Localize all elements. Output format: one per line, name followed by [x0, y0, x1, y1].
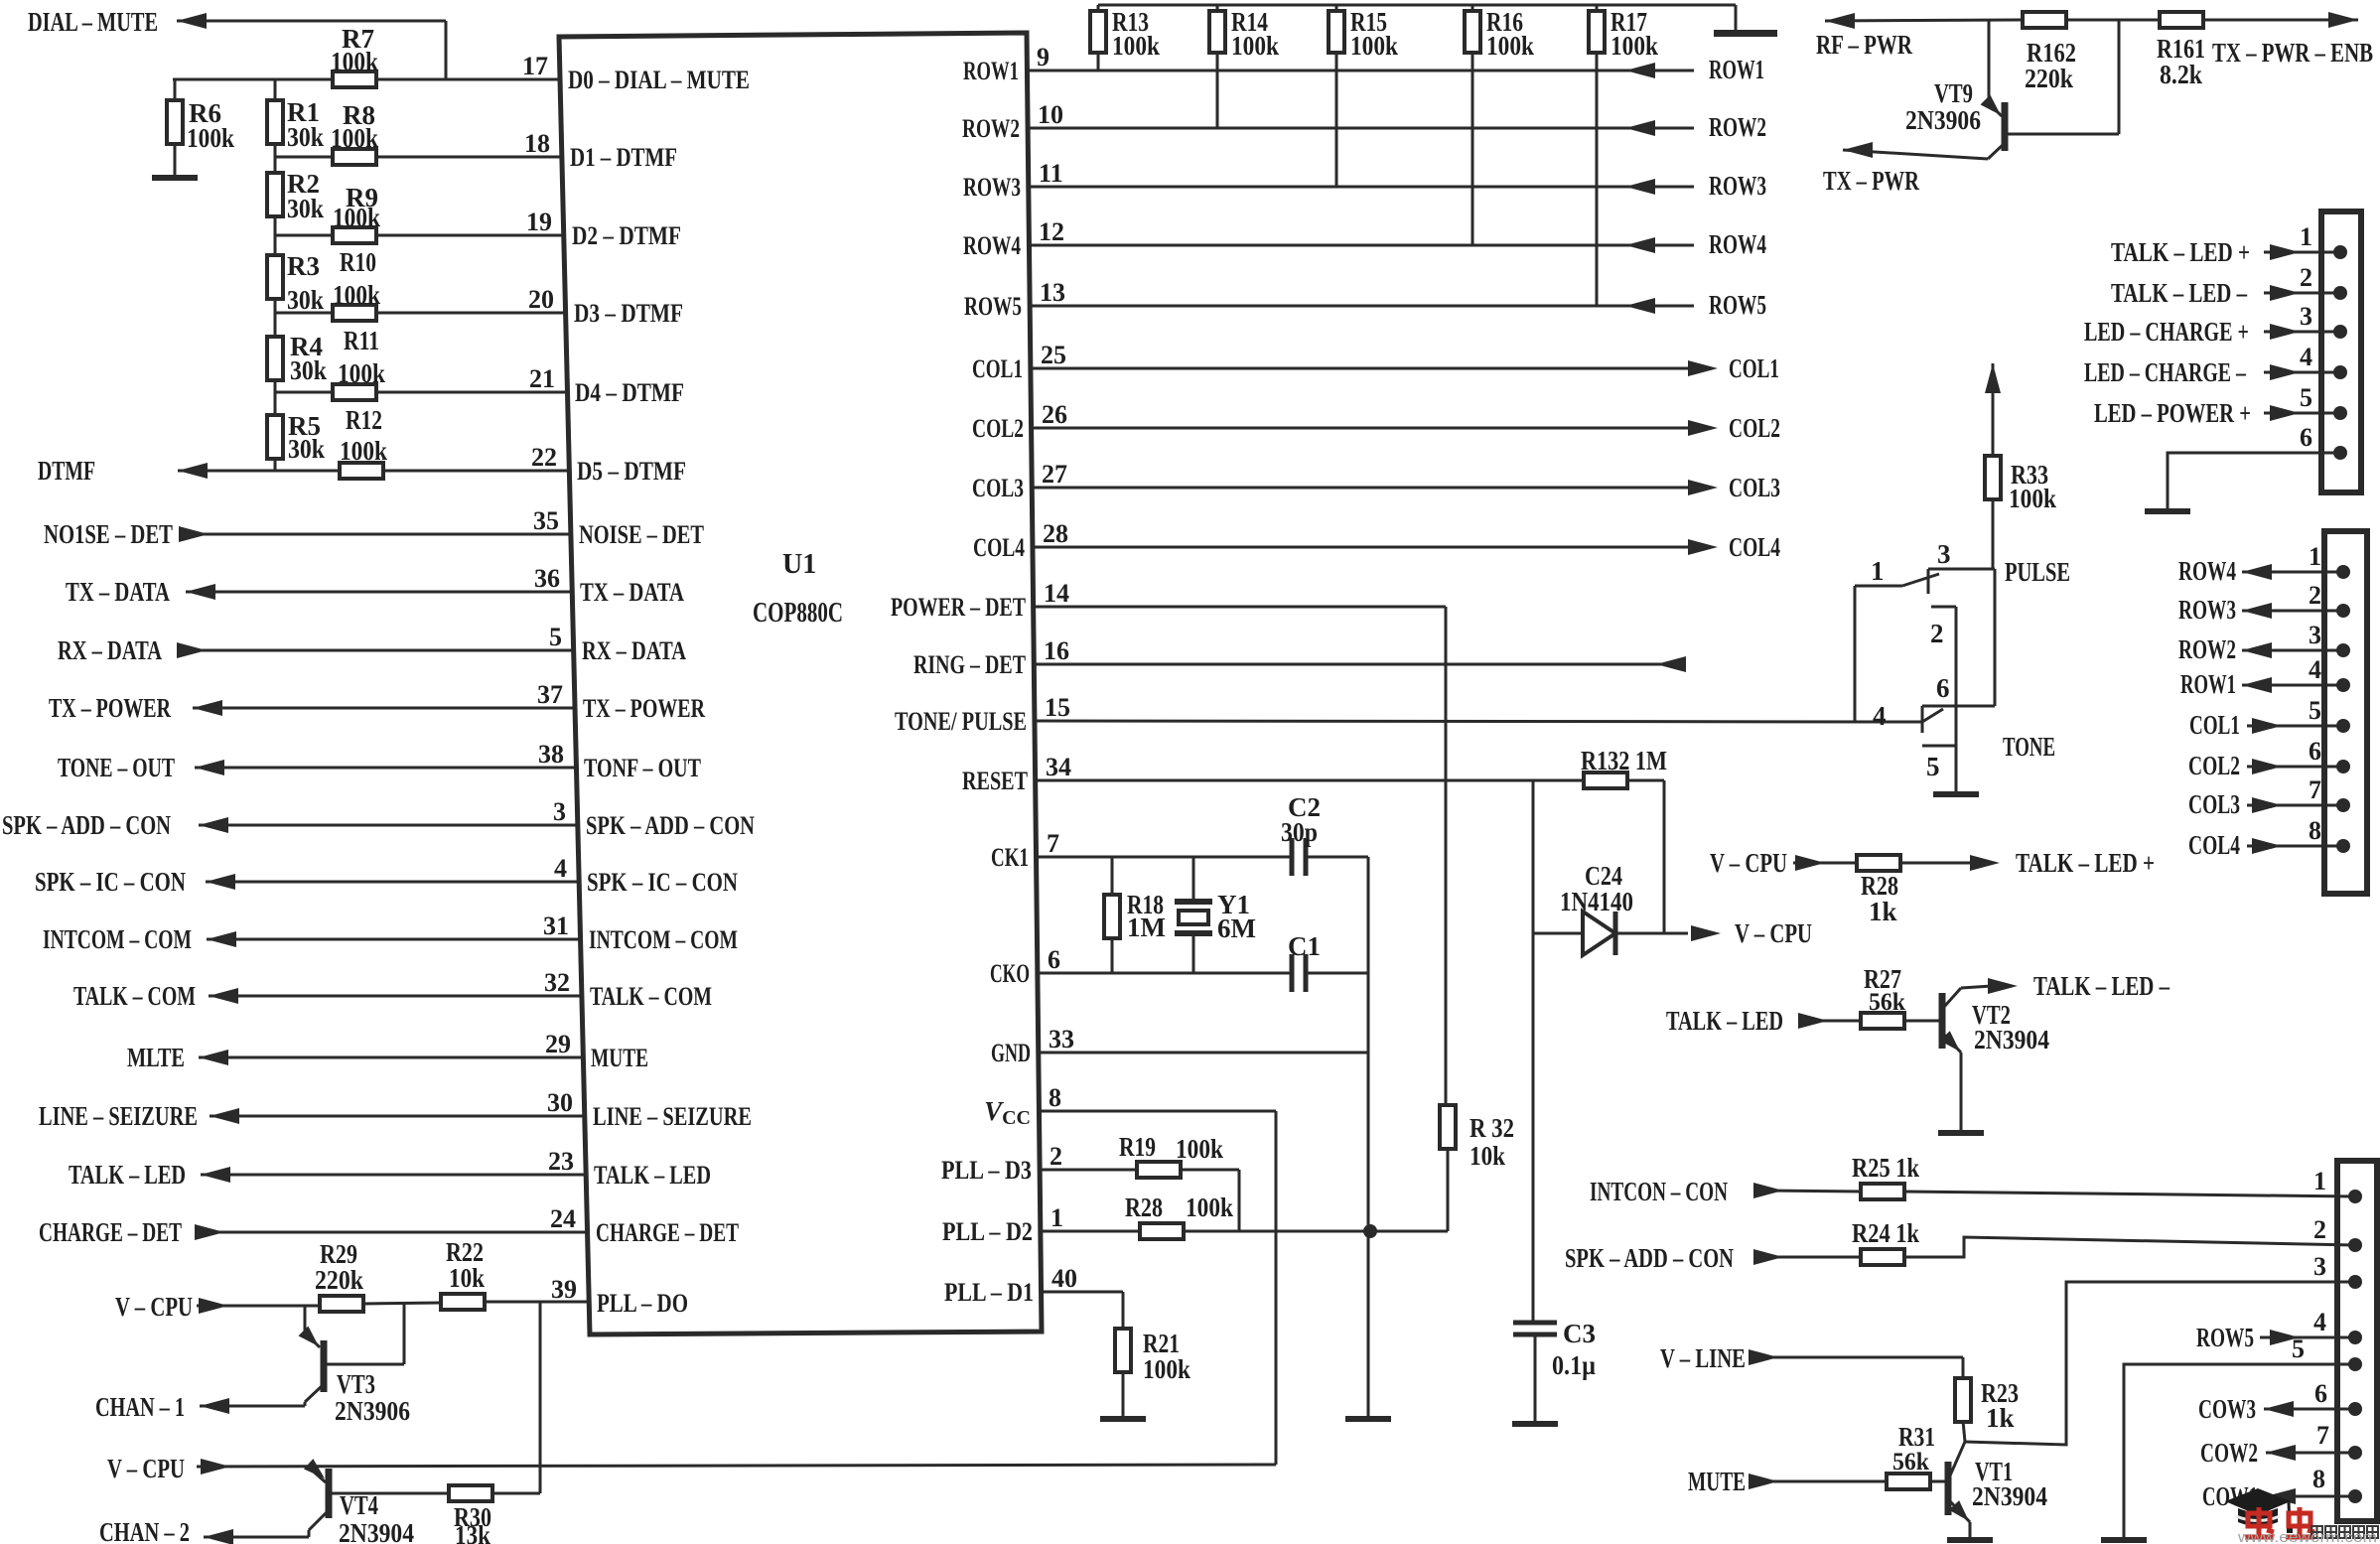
- net ROW2: [1028, 127, 1694, 130]
- crystal Y1 6M: [1192, 857, 1195, 900]
- net COL2: [1032, 427, 1692, 430]
- resistor R33: [1985, 456, 2001, 499]
- svg-text:PULSE: PULSE: [2005, 557, 2070, 587]
- resistor R161: [2160, 12, 2203, 28]
- ground: [1933, 791, 1979, 797]
- svg-text:3: 3: [553, 797, 566, 826]
- svg-text:2N3904: 2N3904: [1974, 1025, 2049, 1054]
- ground: [1947, 1537, 1993, 1543]
- connector J2: [2324, 531, 2367, 894]
- resistor R30: [449, 1485, 492, 1501]
- svg-text:36: 36: [534, 564, 560, 593]
- wire: [492, 1492, 540, 1495]
- watermark logo: [2225, 1488, 2293, 1533]
- svg-text:TX – PWR – ENB: TX – PWR – ENB: [2212, 38, 2373, 68]
- svg-text:ROW5: ROW5: [964, 292, 1022, 321]
- wire: [1761, 1256, 1862, 1259]
- svg-text:NO1SE – DET: NO1SE – DET: [44, 519, 173, 549]
- svg-text:1: 1: [2309, 542, 2321, 571]
- resistor R132: [1584, 772, 1627, 788]
- wire: [197, 1305, 320, 1308]
- svg-text:RESET: RESET: [962, 767, 1028, 795]
- svg-text:ROW1: ROW1: [2180, 669, 2236, 699]
- svg-text:27: 27: [1042, 460, 1067, 489]
- svg-text:30p: 30p: [1281, 817, 1318, 847]
- svg-text:ROW5: ROW5: [1709, 290, 1766, 320]
- resistor R28: [1140, 1223, 1184, 1239]
- wire: [1183, 1230, 1448, 1233]
- wire: [363, 1303, 442, 1304]
- resistor R21: [1115, 1329, 1131, 1372]
- svg-text:MLTE: MLTE: [127, 1043, 185, 1072]
- svg-text:8: 8: [1049, 1083, 1061, 1112]
- wire pin18 D1 line: [275, 156, 562, 159]
- svg-text:3: 3: [2309, 621, 2321, 649]
- resistor R22: [441, 1294, 485, 1310]
- net COL1: [1031, 367, 1692, 370]
- resistor R29: [320, 1296, 363, 1312]
- resistor R10: [333, 305, 376, 321]
- wire pin21 D4 line: [275, 391, 567, 394]
- resistor R13: [1097, 5, 1100, 11]
- resistor R8: [333, 149, 376, 165]
- svg-text:220k: 220k: [315, 1265, 363, 1295]
- svg-text:TALK – COM: TALK – COM: [590, 982, 712, 1011]
- svg-text:NOISE – DET: NOISE – DET: [579, 520, 704, 549]
- svg-text:4: 4: [554, 854, 567, 883]
- svg-text:MUTE: MUTE: [1688, 1467, 1746, 1496]
- capacitor C3: [1513, 1321, 1557, 1326]
- wire contact 2/5 chain: [1931, 606, 1956, 609]
- svg-text:16: 16: [1044, 636, 1069, 665]
- resistor R32: [1440, 1105, 1456, 1149]
- svg-text:TONE – OUT: TONE – OUT: [58, 753, 175, 782]
- svg-text:24: 24: [550, 1204, 576, 1233]
- svg-text:100k: 100k: [1486, 31, 1534, 61]
- switch S1 PULSE/TONE upper section: [1928, 568, 1995, 571]
- svg-text:9: 9: [1037, 43, 1050, 71]
- svg-text:30k: 30k: [287, 285, 324, 315]
- wire: [1805, 1020, 1862, 1023]
- svg-text:8: 8: [2309, 816, 2321, 845]
- svg-text:7: 7: [2309, 775, 2321, 804]
- svg-text:LINE – SEIZURE: LINE – SEIZURE: [593, 1102, 752, 1131]
- svg-text:32: 32: [544, 968, 570, 997]
- svg-text:R 32: R 32: [1470, 1113, 1514, 1143]
- svg-text:6: 6: [1048, 945, 1060, 974]
- svg-text:COW3: COW3: [2198, 1394, 2256, 1424]
- resistor R6: [174, 79, 177, 101]
- wire: [2203, 19, 2358, 22]
- wire: [274, 143, 277, 174]
- wire: [1756, 1480, 1888, 1483]
- svg-text:1: 1: [1871, 556, 1885, 586]
- ground: [1735, 5, 1738, 30]
- wire RESET: [1036, 779, 1584, 782]
- capacitor C1: [1290, 954, 1295, 992]
- svg-text:25: 25: [1041, 341, 1066, 369]
- svg-text:TALK – LED: TALK – LED: [1666, 1006, 1783, 1036]
- wire CKO: [1038, 972, 1292, 975]
- svg-text:6: 6: [2314, 1379, 2327, 1408]
- svg-text:100k: 100k: [1176, 1134, 1223, 1164]
- svg-text:TX – POWER: TX – POWER: [49, 693, 171, 723]
- svg-text:PLL – DO: PLL – DO: [597, 1289, 688, 1318]
- svg-text:6: 6: [2309, 737, 2321, 766]
- watermark red glyphs: [2245, 1507, 2274, 1537]
- svg-text:SPK – ADD – CON: SPK – ADD – CON: [2, 810, 171, 840]
- wire PLL-D1: [1042, 1291, 1123, 1294]
- svg-text:30: 30: [547, 1088, 573, 1117]
- svg-text:R3: R3: [287, 251, 320, 281]
- svg-text:U1: U1: [782, 549, 816, 580]
- svg-text:LED – POWER +: LED – POWER +: [2094, 398, 2251, 428]
- svg-text:CHAN – 1: CHAN – 1: [95, 1392, 185, 1422]
- svg-text:22: 22: [531, 443, 557, 472]
- switch S1 lower section: [1922, 705, 1995, 708]
- wire: [1963, 1421, 1965, 1442]
- svg-text:30k: 30k: [288, 434, 325, 464]
- svg-text:TALK – LED –: TALK – LED –: [2033, 971, 2170, 1001]
- svg-text:17: 17: [522, 52, 548, 80]
- svg-text:R10: R10: [340, 247, 376, 277]
- wire: [1903, 1020, 1939, 1023]
- svg-text:1: 1: [2313, 1167, 2326, 1195]
- resistor R17: [1596, 5, 1599, 11]
- wire: [1903, 1237, 2355, 1257]
- svg-text:14: 14: [1044, 579, 1069, 608]
- svg-text:COL4: COL4: [973, 533, 1025, 562]
- wire: [1180, 1169, 1239, 1172]
- svg-text:ROW2: ROW2: [962, 114, 1020, 143]
- svg-text:5: 5: [2300, 383, 2312, 412]
- resistor R25 1k: [1861, 1184, 1904, 1199]
- svg-text:COL4: COL4: [2188, 830, 2240, 860]
- svg-text:ROW2: ROW2: [1709, 112, 1766, 142]
- svg-text:TONE/ PULSE: TONE/ PULSE: [895, 707, 1027, 736]
- net COL3: [1032, 487, 1692, 490]
- svg-text:100k: 100k: [331, 123, 378, 153]
- wire: [274, 458, 277, 471]
- svg-text:19: 19: [526, 208, 552, 236]
- ground: [1345, 1416, 1391, 1422]
- svg-text:PLL – D1: PLL – D1: [944, 1278, 1034, 1307]
- watermark black glyphs: [2311, 1526, 2322, 1538]
- wire PULSE to contact 6: [1994, 569, 1997, 706]
- svg-text:100k: 100k: [187, 123, 234, 153]
- svg-text:COL3: COL3: [972, 474, 1024, 502]
- wire: [274, 298, 277, 338]
- resistor R23: [1962, 1357, 1965, 1378]
- ground: [1512, 1421, 1558, 1427]
- svg-text:18: 18: [524, 129, 550, 158]
- svg-text:V – CPU: V – CPU: [1710, 848, 1787, 878]
- resistor R9: [333, 227, 376, 243]
- svg-text:TONE: TONE: [2003, 732, 2055, 762]
- resistor R1: [274, 79, 277, 101]
- svg-text:INTCON – CON: INTCON – CON: [1590, 1177, 1728, 1206]
- svg-text:R11: R11: [344, 326, 379, 355]
- svg-text:TALK – LED +: TALK – LED +: [2111, 237, 2250, 267]
- net TX-PWR: [1843, 150, 1988, 159]
- svg-text:COW2: COW2: [2200, 1438, 2258, 1468]
- wire: [197, 1465, 1276, 1467]
- svg-text:CK1: CK1: [991, 843, 1029, 872]
- svg-text:R31: R31: [1898, 1422, 1935, 1452]
- wire: [1992, 498, 1995, 569]
- svg-text:C1: C1: [1288, 931, 1321, 961]
- svg-text:VT4: VT4: [340, 1490, 378, 1520]
- svg-text:ROW3: ROW3: [963, 173, 1021, 202]
- resistor R27: [1861, 1013, 1904, 1029]
- svg-text:15: 15: [1045, 693, 1070, 722]
- svg-text:2N3904: 2N3904: [1972, 1481, 2047, 1511]
- resistor R12: [340, 463, 383, 479]
- wire CK1: [1037, 856, 1292, 859]
- svg-text:100k: 100k: [2009, 484, 2056, 513]
- resistor R24 1k: [1861, 1249, 1904, 1265]
- svg-text:TALK – LED –: TALK – LED –: [2111, 278, 2247, 308]
- svg-text:2N3904: 2N3904: [339, 1518, 414, 1544]
- svg-text:COL2: COL2: [2188, 751, 2240, 780]
- net ROW1: [1027, 70, 1694, 72]
- svg-text:34: 34: [1046, 753, 1071, 781]
- wire: [2066, 19, 2160, 22]
- svg-text:D2 – DTMF: D2 – DTMF: [572, 221, 681, 250]
- svg-text:26: 26: [1042, 400, 1067, 429]
- svg-text:TALK – LED: TALK – LED: [69, 1160, 186, 1190]
- wire: [1532, 780, 1535, 1322]
- svg-text:2: 2: [1930, 619, 1944, 648]
- svg-text:28: 28: [1043, 519, 1068, 548]
- svg-text:1: 1: [2300, 222, 2312, 251]
- IC U1 COP880C: [559, 33, 1042, 1334]
- wire: [484, 1301, 589, 1304]
- svg-text:31: 31: [543, 912, 569, 940]
- net keypad arrow: [1985, 363, 2001, 393]
- resistor R14: [1216, 5, 1219, 11]
- resistor R15: [1335, 5, 1338, 11]
- net ROW4: [1029, 244, 1694, 247]
- transistor VT1: [1945, 1462, 1952, 1515]
- svg-text:30k: 30k: [290, 355, 327, 385]
- svg-text:4: 4: [1873, 701, 1887, 731]
- svg-text:COP880C: COP880C: [753, 598, 843, 629]
- resistor R3: [267, 255, 283, 299]
- svg-text:5: 5: [2309, 696, 2321, 725]
- svg-text:12: 12: [1039, 217, 1064, 246]
- svg-text:40: 40: [1051, 1264, 1077, 1293]
- svg-text:2N3906: 2N3906: [335, 1396, 410, 1426]
- svg-text:PLL – D3: PLL – D3: [941, 1156, 1032, 1185]
- svg-text:COL3: COL3: [1729, 473, 1780, 502]
- svg-text:20: 20: [528, 285, 554, 314]
- resistor R2: [267, 173, 283, 216]
- svg-text:D4 – DTMF: D4 – DTMF: [575, 378, 684, 407]
- svg-text:11: 11: [1039, 159, 1063, 188]
- ground: [1100, 1416, 1146, 1422]
- svg-text:R19: R19: [1119, 1132, 1156, 1162]
- svg-text:R25 1k: R25 1k: [1852, 1153, 1919, 1183]
- svg-text:7: 7: [2316, 1421, 2329, 1450]
- wire top bus: [1098, 4, 1736, 7]
- svg-text:ROW1: ROW1: [1709, 55, 1764, 84]
- wire: [1903, 1192, 2355, 1196]
- svg-text:ROW2: ROW2: [2178, 634, 2236, 664]
- wire PLL-D2: [1041, 1230, 1141, 1233]
- svg-text:COL3: COL3: [2188, 789, 2240, 819]
- wire pin3 riser: [1965, 1282, 2355, 1445]
- svg-text:100k: 100k: [331, 47, 378, 76]
- svg-text:C3: C3: [1563, 1319, 1596, 1348]
- svg-text:DIAL – MUTE: DIAL – MUTE: [28, 7, 158, 37]
- svg-text:TALK – COM: TALK – COM: [73, 981, 196, 1011]
- ground: [2101, 1537, 2147, 1543]
- svg-text:2: 2: [2300, 263, 2312, 292]
- svg-text:MUTE: MUTE: [591, 1044, 648, 1072]
- svg-text:LED – CHARGE –: LED – CHARGE –: [2084, 357, 2246, 387]
- svg-text:13k: 13k: [455, 1520, 490, 1544]
- svg-text:CHARGE – DET: CHARGE – DET: [39, 1217, 182, 1247]
- resistor R4: [267, 337, 283, 380]
- svg-text:D1 – DTMF: D1 – DTMF: [570, 143, 677, 172]
- wire PLL-D3: [1040, 1169, 1138, 1172]
- svg-text:100k: 100k: [338, 358, 385, 388]
- svg-text:39: 39: [551, 1275, 577, 1304]
- svg-text:220k: 220k: [2025, 64, 2073, 93]
- svg-text:1: 1: [1050, 1203, 1063, 1232]
- capacitor C2: [1290, 838, 1295, 876]
- svg-text:100k: 100k: [1186, 1193, 1233, 1222]
- svg-text:3: 3: [1937, 539, 1951, 569]
- wire pin17 D0 line: [173, 78, 560, 81]
- wire: [1447, 1149, 1450, 1231]
- svg-text:ROW4: ROW4: [1709, 229, 1766, 259]
- svg-text:TX – PWR: TX – PWR: [1823, 166, 1919, 196]
- svg-text:ROW4: ROW4: [2178, 556, 2236, 586]
- resistor R28 1k: [1857, 855, 1900, 871]
- svg-text:38: 38: [538, 740, 564, 769]
- svg-text:V – LINE: V – LINE: [1660, 1343, 1746, 1373]
- svg-text:100k: 100k: [1143, 1354, 1190, 1384]
- svg-text:100k: 100k: [1610, 31, 1658, 61]
- svg-text:D0 – DIAL – MUTE: D0 – DIAL – MUTE: [568, 66, 750, 94]
- svg-text:ROW5: ROW5: [2196, 1323, 2254, 1352]
- svg-text:33: 33: [1049, 1025, 1074, 1053]
- svg-text:www.eeworm.com: www.eeworm.com: [2237, 1529, 2377, 1544]
- svg-text:LINE – SEIZURE: LINE – SEIZURE: [39, 1101, 198, 1131]
- wire RING-DET: [1034, 663, 1685, 666]
- svg-text:30k: 30k: [287, 122, 324, 152]
- svg-text:1N4140: 1N4140: [1560, 887, 1633, 916]
- svg-text:100k: 100k: [1231, 31, 1279, 61]
- svg-text:V – CPU: V – CPU: [115, 1292, 193, 1322]
- wire: [1306, 972, 1368, 975]
- svg-text:INTCOM – COM: INTCOM – COM: [589, 925, 738, 954]
- resistor R5: [267, 415, 283, 459]
- svg-text:POWER – DET: POWER – DET: [891, 593, 1026, 622]
- wire pin20 D3 line: [275, 312, 566, 315]
- svg-text:ROW4: ROW4: [963, 231, 1021, 260]
- svg-text:1M: 1M: [1127, 912, 1166, 942]
- svg-text:R12: R12: [346, 405, 382, 435]
- wire: [1627, 779, 1664, 782]
- svg-text:RX – DATA: RX – DATA: [582, 636, 686, 665]
- svg-text:10k: 10k: [1470, 1141, 1505, 1171]
- svg-text:100k: 100k: [1112, 31, 1160, 61]
- wire: [1793, 862, 1858, 865]
- svg-text:VT9: VT9: [1934, 78, 1973, 108]
- svg-text:23: 23: [548, 1147, 574, 1176]
- ground: [2145, 508, 2190, 514]
- wire POWER-DET: [1034, 606, 1446, 609]
- ground: [1938, 1130, 1984, 1136]
- svg-text:LED – CHARGE +: LED – CHARGE +: [2084, 317, 2249, 347]
- wire: [1825, 20, 2023, 21]
- wire: [1761, 1191, 1862, 1192]
- svg-text:COL1: COL1: [972, 354, 1023, 383]
- transistor VT9: [1988, 20, 1991, 103]
- resistor R11: [333, 384, 376, 400]
- svg-text:100k: 100k: [333, 280, 380, 310]
- wire: [1854, 586, 1857, 722]
- svg-text:CHARGE – DET: CHARGE – DET: [596, 1218, 739, 1247]
- transistor VT3: [304, 1306, 307, 1333]
- svg-text:1k: 1k: [1869, 897, 1897, 926]
- svg-text:5: 5: [1926, 752, 1940, 781]
- wire pin19 D2 line: [275, 234, 564, 237]
- wire: [1899, 862, 1976, 865]
- svg-text:6: 6: [1936, 673, 1950, 703]
- svg-text:100k: 100k: [340, 436, 387, 466]
- resistor R162: [2023, 12, 2066, 28]
- svg-text:RING – DET: RING – DET: [913, 650, 1026, 679]
- svg-text:V – CPU: V – CPU: [107, 1454, 185, 1483]
- svg-text:RF – PWR: RF – PWR: [1816, 30, 1912, 60]
- connector J3: [2337, 1161, 2377, 1521]
- svg-text:COL4: COL4: [1729, 532, 1780, 562]
- transistor VT4: [308, 1467, 326, 1482]
- ground: [152, 175, 198, 181]
- svg-text:COL2: COL2: [1729, 413, 1780, 443]
- svg-text:TX – DATA: TX – DATA: [580, 578, 684, 607]
- svg-text:5: 5: [549, 623, 562, 651]
- svg-text:35: 35: [533, 506, 559, 535]
- svg-text:56k: 56k: [1892, 1449, 1929, 1475]
- wire: [274, 379, 277, 416]
- net ROW5: [1030, 305, 1694, 308]
- svg-text:R24 1k: R24 1k: [1852, 1218, 1919, 1248]
- node junction: [1363, 1224, 1377, 1238]
- svg-text:DTMF: DTMF: [38, 456, 95, 486]
- wire: [177, 20, 446, 23]
- svg-text:PLL – D2: PLL – D2: [942, 1217, 1033, 1246]
- svg-text:21: 21: [529, 364, 555, 393]
- svg-text:COL1: COL1: [1729, 353, 1779, 383]
- svg-text:3: 3: [2300, 302, 2312, 331]
- svg-text:COL2: COL2: [972, 414, 1024, 443]
- svg-text:TALK – LED +: TALK – LED +: [2016, 848, 2155, 878]
- svg-text:2N3906: 2N3906: [1905, 105, 1981, 135]
- svg-text:V – CPU: V – CPU: [1735, 918, 1812, 948]
- svg-text:VT3: VT3: [337, 1369, 375, 1399]
- svg-text:D3 – DTMF: D3 – DTMF: [574, 299, 683, 328]
- resistor R19: [1137, 1162, 1181, 1178]
- svg-text:6M: 6M: [1217, 913, 1256, 943]
- svg-text:56k: 56k: [1869, 989, 1905, 1016]
- net ROW3: [1029, 186, 1694, 189]
- svg-text:ROW3: ROW3: [1709, 171, 1766, 201]
